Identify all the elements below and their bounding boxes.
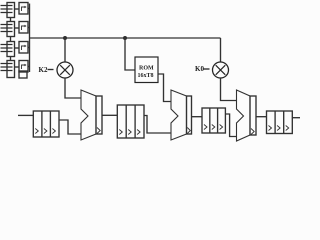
input cell IC2: [1, 18, 30, 37]
shift register SR4: [267, 111, 293, 134]
pipeline register P2: [187, 96, 192, 134]
output wire: [292, 117, 300, 119]
wire A3 to SR4: [256, 116, 267, 118]
input cell IC4: [1, 57, 30, 79]
input cell IC1: [1, 3, 30, 18]
wire K0 to adder A3: [221, 78, 237, 101]
input cell IC3: [1, 37, 30, 57]
shift register SR2: [117, 105, 144, 138]
svg-text:ROM: ROM: [139, 66, 154, 72]
multiplier K0: [213, 62, 229, 78]
junction dot A: [63, 36, 67, 40]
wire A1 to SR2: [102, 114, 117, 116]
wire SR1 to adder A1: [59, 120, 81, 134]
wire K2 to adder A1: [65, 78, 81, 98]
shift register SR1: [33, 111, 59, 137]
shift register SR3: [202, 108, 225, 133]
wire SR2 to adder A2: [144, 116, 171, 134]
wire bus to ROM: [125, 38, 135, 70]
wire ROM to adder A2: [158, 74, 171, 102]
adder A2: [171, 90, 187, 140]
wire A2 to SR3: [192, 116, 203, 118]
wire bus to K2: [64, 38, 66, 62]
adder A1: [81, 90, 96, 140]
pipeline register P1: [96, 96, 102, 134]
input wire: [18, 114, 33, 116]
svg-text:16xT8: 16xT8: [138, 73, 154, 79]
junction dot B: [123, 36, 127, 40]
vertical rail: [29, 4, 31, 73]
label K0: [195, 65, 210, 73]
wire bus to K0: [220, 38, 222, 62]
multiplier K2: [57, 62, 73, 78]
svg-text:K0: K0: [195, 65, 204, 73]
adder A3: [237, 90, 251, 141]
ROM U1 16xT8: [135, 57, 158, 83]
wire SR3 to adder A3: [225, 114, 236, 137]
svg-text:K2: K2: [39, 66, 48, 74]
pipeline register P3: [250, 96, 256, 135]
bus wire: [30, 37, 221, 39]
label K2: [39, 66, 54, 74]
